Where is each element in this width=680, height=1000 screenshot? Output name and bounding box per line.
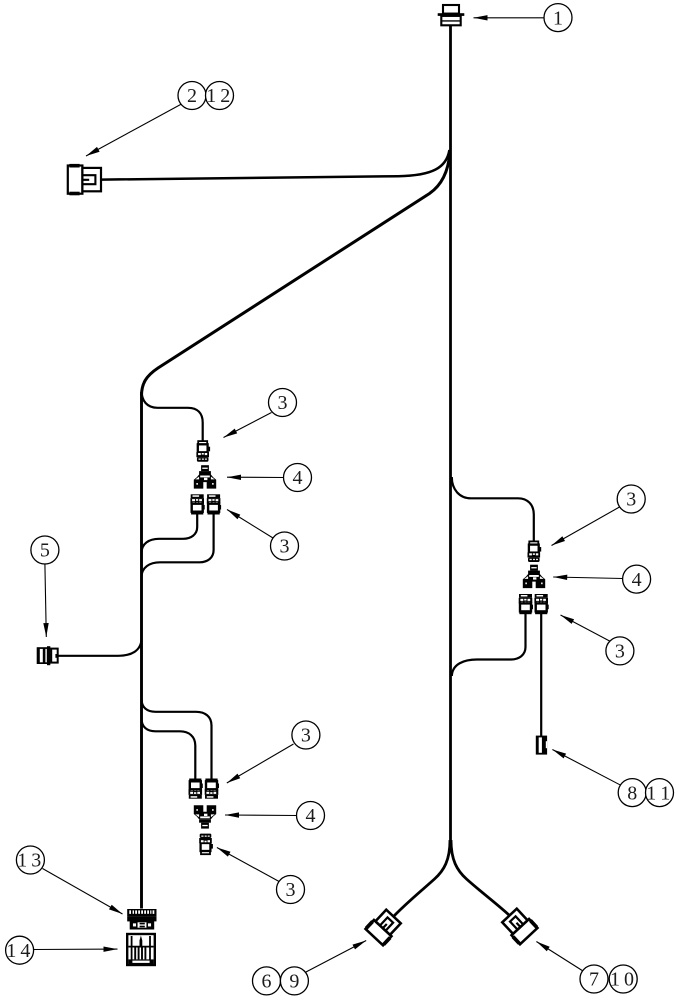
connector 3 (right Y top plug) — [528, 541, 542, 562]
svg-text:7: 7 — [589, 969, 599, 991]
connector 3 (Y2 top-left plug) — [189, 779, 203, 799]
connector 1 (top plug) — [438, 5, 465, 25]
connector 4 (Y1 adapter) — [194, 465, 216, 488]
svg-text:1: 1 — [660, 782, 670, 804]
leader arrow to item 14 — [34, 947, 118, 952]
callout balloon 3 (Y2 bottom) — [277, 876, 305, 904]
wire: branch feeding Y2 right connector — [142, 699, 212, 779]
leader arrow to right Y adapter (4) — [553, 575, 623, 580]
connector 3 (Y1 bottom-left plug) — [190, 494, 204, 514]
connector 13 (flat multi-pin) — [127, 909, 156, 929]
callout balloon 8 — [618, 779, 646, 807]
svg-text:6: 6 — [262, 971, 272, 993]
connector 7 / 10 (angled E-plug, bottom right) — [499, 906, 538, 945]
wire: diagonal from trunk to left trunk — [142, 153, 450, 396]
callout balloon 6 — [253, 967, 281, 995]
wire: Y1 left return to trunk — [142, 513, 198, 553]
svg-text:8: 8 — [627, 782, 637, 804]
wire: Y1 right return to trunk — [142, 513, 214, 577]
callout balloon 4 (Y1) — [284, 464, 312, 492]
callout balloon 13 — [16, 846, 44, 874]
connector 2 / 12 (E-plug, far left) — [68, 164, 101, 195]
leader arrow to item 2 — [86, 104, 182, 156]
svg-text:3: 3 — [31, 850, 41, 872]
callout balloon 3 (right Y bottom) — [606, 637, 634, 665]
callout balloon 11 — [646, 779, 674, 807]
wire: branch feeding Y1 top connector — [142, 390, 203, 441]
svg-text:1: 1 — [17, 850, 27, 872]
svg-text:5: 5 — [40, 540, 50, 562]
svg-text:4: 4 — [306, 805, 316, 827]
connector 5 (round plug, far left) — [37, 646, 58, 665]
svg-text:4: 4 — [20, 940, 30, 962]
wire: right Y right lead down to item 8 — [540, 614, 542, 737]
leader arrow to item 1 — [474, 15, 545, 20]
leader arrow to Y2 adapter (4) — [225, 812, 297, 817]
svg-text:1: 1 — [610, 969, 620, 991]
callout balloon 10 — [609, 965, 637, 993]
connector 3 (Y2 bottom plug) — [199, 834, 213, 855]
leader arrow to right Y bottom plug (3) — [561, 615, 611, 642]
svg-text:3: 3 — [626, 489, 636, 511]
callout balloon 4 (Y2) — [297, 802, 325, 830]
svg-text:1: 1 — [206, 85, 216, 107]
svg-text:3: 3 — [286, 879, 296, 901]
svg-text:2: 2 — [187, 85, 197, 107]
svg-text:4: 4 — [632, 569, 642, 591]
callout balloon 12 — [206, 82, 234, 110]
svg-text:3: 3 — [301, 725, 311, 747]
leader arrow to item 8/11 — [552, 750, 621, 786]
svg-text:0: 0 — [624, 969, 634, 991]
leader arrow to Y2 top plug (3) — [227, 744, 294, 783]
svg-text:3: 3 — [615, 641, 625, 663]
wire: branch feeding right Y top connector — [452, 477, 534, 541]
wire: left trunk — [140, 392, 143, 909]
wire: branch feeding Y2 left connector — [142, 719, 196, 780]
svg-text:1: 1 — [553, 7, 563, 29]
connector 3 (Y2 top-right plug) — [205, 779, 219, 799]
callout balloon 1 — [544, 4, 572, 32]
leader arrow to Y2 bottom plug (3) — [217, 848, 280, 883]
svg-text:3: 3 — [278, 392, 288, 414]
wire: item 5 lead to trunk — [57, 639, 142, 656]
svg-text:1: 1 — [6, 940, 16, 962]
connector 3 (right Y bottom-left plug) — [519, 594, 533, 614]
wire: trunk split left branch — [394, 840, 450, 916]
leader arrow to Y1 adapter (4) — [227, 475, 284, 480]
callout balloon 2 — [178, 82, 206, 110]
callout balloon 3 (Y2 top) — [292, 721, 320, 749]
connector 6 / 9 (angled E-plug, bottom left) — [364, 907, 403, 946]
wire: trunk split right branch — [451, 840, 509, 915]
leader arrow to item 5 — [43, 564, 48, 637]
wire: branch to connector 2 — [102, 150, 449, 180]
callout balloon 5 — [31, 536, 59, 564]
connector 14 (grid receptacle) — [127, 934, 155, 965]
connector 3 (Y1 top plug) — [196, 441, 210, 462]
svg-text:1: 1 — [646, 782, 656, 804]
svg-text:9: 9 — [289, 971, 299, 993]
callout balloon 4 (right Y) — [623, 565, 651, 593]
leader arrow to right Y top plug (3) — [552, 507, 620, 546]
svg-text:2: 2 — [220, 85, 230, 107]
connector 3 (Y1 bottom-right plug) — [207, 494, 221, 514]
callout balloon 7 — [580, 965, 608, 993]
svg-text:3: 3 — [280, 536, 290, 558]
connector 4 (Y2 adapter, inverted) — [194, 805, 216, 828]
leader arrow to item 7/10 — [536, 942, 583, 972]
leader arrow to Y1 top plug (3) — [224, 413, 272, 438]
callout balloon 3 (Y1 top) — [269, 389, 297, 417]
callout balloon 3 (Y1 bottom) — [271, 532, 299, 560]
connector 8 / 11 (small terminal) — [536, 736, 547, 755]
leader arrow to item 13 — [43, 869, 123, 915]
wire: main trunk — [449, 24, 452, 844]
leader arrow to item 6/9 — [305, 941, 366, 973]
callout balloon 14 — [6, 936, 34, 964]
callout balloon 3 (right Y top) — [617, 485, 645, 513]
wire: right Y left return to trunk — [452, 614, 526, 677]
svg-text:4: 4 — [293, 467, 303, 489]
connector 3 (right Y bottom-right plug) — [534, 594, 548, 614]
leader arrow to Y1 bottom plug (3) — [227, 510, 273, 539]
connector 4 (right Y adapter) — [523, 565, 545, 588]
callout balloon 9 — [280, 967, 308, 995]
